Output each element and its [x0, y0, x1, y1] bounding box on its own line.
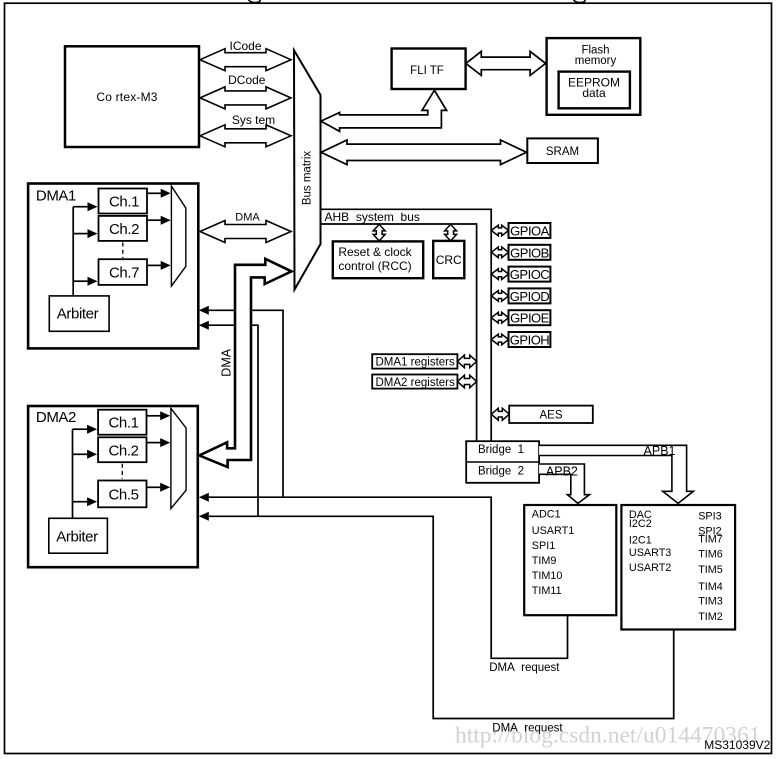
svg-text:data: data — [582, 86, 606, 100]
caption fragment 2 — [574, 0, 586, 3]
DMA1 mux — [171, 186, 185, 286]
ICode bus arrow — [200, 49, 291, 71]
svg-text:USART2: USART2 — [629, 562, 671, 574]
DMA bus double arrow — [200, 221, 291, 243]
DMA request wire branch to DMA1 — [209, 310, 284, 497]
caption fragment 1 — [249, 0, 261, 3]
DMA pipe arrow bus matrix to DMA2 — [199, 259, 291, 467]
DMA1 channel to mux arrow — [147, 192, 161, 194]
svg-text:control (RCC): control (RCC) — [338, 259, 411, 273]
svg-text:Reset & clock: Reset & clock — [338, 245, 412, 259]
svg-text:TIM3: TIM3 — [698, 596, 723, 608]
svg-text:MS31039V2: MS31039V2 — [704, 738, 770, 752]
DMA request wire from DAC group — [208, 516, 674, 718]
DMA request wire branch to DMA1 — [209, 325, 259, 516]
System bus arrow — [200, 125, 291, 147]
DMA2 box — [28, 406, 198, 567]
bus matrix to FLITF bent arrow — [321, 90, 447, 131]
DMA1 Ch.1 box — [99, 189, 148, 214]
DMA2 feeder wire — [72, 429, 74, 518]
RCC double arrow — [373, 224, 385, 241]
DMA1 feeder wire — [72, 207, 74, 296]
svg-text:TIM4: TIM4 — [698, 581, 723, 593]
DMA1 channel to mux arrow — [147, 219, 161, 221]
svg-text:FLI TF: FLI TF — [410, 65, 444, 77]
svg-text:USART3: USART3 — [629, 547, 671, 559]
svg-text:TIM5: TIM5 — [698, 564, 723, 576]
DMA1 box — [28, 184, 198, 349]
svg-text:DMA2 registers: DMA2 registers — [376, 377, 455, 389]
svg-text:TIM9: TIM9 — [532, 555, 557, 567]
DMA1 feeder stub arrow — [73, 280, 88, 282]
svg-text:GPIOA: GPIOA — [510, 224, 550, 239]
svg-text:I2C2: I2C2 — [629, 518, 652, 530]
DMA2 feeder stub arrow — [73, 453, 88, 455]
GPIOC double arrow — [491, 269, 508, 280]
GPIOD double arrow — [491, 291, 508, 302]
AHB system bus top line — [321, 209, 491, 441]
svg-text:SPI3: SPI3 — [698, 510, 721, 522]
svg-text:I2C1: I2C1 — [629, 535, 652, 547]
GPIOH box — [509, 332, 551, 347]
Bridge 1 / Bridge 2 box — [466, 441, 539, 483]
DMA2 Ch.1 box — [98, 410, 146, 435]
Reset & clock control (RCC) box — [333, 241, 423, 278]
GPIOC box — [509, 267, 551, 282]
svg-text:GPIOC: GPIOC — [510, 267, 550, 282]
svg-text:Ch.1: Ch.1 — [108, 415, 138, 432]
SRAM double arrow — [321, 140, 527, 165]
AES box — [509, 406, 593, 423]
DMA1 feeder stub arrow — [73, 206, 88, 208]
DMA2 feeder stub arrow — [73, 501, 88, 503]
svg-text:APB1: APB1 — [644, 444, 676, 458]
svg-text:AHB system bus: AHB system bus — [325, 210, 420, 224]
SRAM box — [527, 138, 598, 163]
DMA2 channel to mux arrow — [147, 486, 161, 488]
arrowhead into DMA2 — [199, 493, 209, 502]
APB1 bus with down arrow — [539, 445, 693, 503]
GPIOE double arrow — [491, 312, 508, 323]
svg-text:USART1: USART1 — [532, 525, 574, 537]
svg-text:DMA2: DMA2 — [36, 409, 76, 426]
GPIOD box — [509, 288, 551, 303]
svg-text:TIM10: TIM10 — [532, 570, 563, 582]
svg-text:Bridge 2: Bridge 2 — [478, 465, 524, 477]
svg-text:AES: AES — [539, 409, 562, 421]
DMA1 channel to mux arrow — [147, 264, 161, 266]
svg-text:DMA: DMA — [235, 212, 260, 224]
APB2 bus with down arrow — [539, 464, 589, 503]
svg-text:TIM2: TIM2 — [698, 611, 723, 623]
svg-text:DCode: DCode — [228, 73, 266, 87]
svg-text:GPIOH: GPIOH — [510, 333, 550, 348]
svg-text:Ch.2: Ch.2 — [109, 221, 139, 238]
svg-text:Ch.1: Ch.1 — [109, 193, 139, 210]
svg-text:SPI1: SPI1 — [532, 540, 555, 552]
DMA2 Ch.2 box — [98, 437, 146, 462]
svg-text:APB2: APB2 — [546, 464, 578, 478]
svg-text:GPIOB: GPIOB — [510, 245, 549, 260]
svg-text:DMA request: DMA request — [492, 723, 563, 735]
Cortex-M3 box — [65, 46, 199, 147]
svg-text:ICode: ICode — [229, 39, 261, 53]
DMA2 dashed line — [121, 464, 123, 479]
arrowhead into DMA1 — [199, 321, 209, 330]
CRC double arrow — [445, 224, 457, 241]
bus matrix — [294, 50, 321, 289]
CRC box — [433, 241, 464, 278]
svg-text:ADC1: ADC1 — [532, 509, 561, 521]
GPIOE box — [509, 310, 551, 325]
svg-text:DMA request: DMA request — [489, 662, 560, 674]
svg-text:SRAM: SRAM — [546, 146, 579, 158]
arrowhead into DMA2 — [199, 512, 209, 521]
DMA2 Ch.5 box — [98, 481, 146, 508]
DMA2 registers double arrow — [457, 375, 476, 388]
svg-text:memory: memory — [575, 55, 617, 67]
DMA request wire from ADC1 group — [208, 497, 568, 658]
DMA2 mux — [171, 408, 186, 508]
FLITF box — [392, 49, 466, 90]
svg-text:Arbiter: Arbiter — [57, 305, 99, 322]
arrowhead into DMA1 — [199, 306, 209, 315]
DMA1 Ch.7 box — [99, 259, 148, 285]
DMA1 dashed line — [122, 243, 124, 259]
svg-text:Ch.2: Ch.2 — [108, 442, 138, 459]
svg-text:DMA1: DMA1 — [36, 188, 76, 205]
svg-text:Ch.5: Ch.5 — [108, 486, 138, 503]
svg-text:DMA: DMA — [220, 348, 234, 376]
DMA1 registers double arrow — [457, 355, 476, 368]
svg-text:Ch.7: Ch.7 — [109, 265, 139, 282]
svg-text:DMA1 registers: DMA1 registers — [376, 357, 455, 369]
AES double arrow — [491, 408, 509, 420]
GPIOB double arrow — [491, 247, 508, 258]
svg-text:Bus matrix: Bus matrix — [302, 151, 314, 206]
APB1 peripherals box DAC.. — [621, 505, 735, 630]
DMA1 Ch.2 box — [99, 216, 148, 241]
DCode bus arrow — [200, 87, 291, 109]
DMA2 channel to mux arrow — [147, 442, 161, 444]
svg-text:GPIOE: GPIOE — [510, 311, 550, 326]
svg-text:Sys tem: Sys tem — [232, 113, 275, 127]
GPIOH double arrow — [491, 334, 508, 345]
DMA2 arbiter box — [49, 518, 108, 553]
svg-text:TIM7: TIM7 — [698, 534, 723, 546]
APB2 peripherals box ADC1.. — [524, 505, 616, 615]
GPIOA box — [509, 223, 551, 238]
svg-text:GPIOD: GPIOD — [510, 289, 550, 304]
AHB system bus bottom line — [321, 224, 477, 441]
svg-text:Co rtex-M3: Co rtex-M3 — [96, 90, 157, 104]
GPIOA double arrow — [491, 225, 508, 236]
FLITF-Flash double arrow — [466, 51, 546, 75]
DMA2 feeder stub arrow — [73, 428, 88, 430]
svg-text:CRC: CRC — [436, 253, 462, 267]
DMA1 registers box — [372, 354, 457, 368]
EEPROM data box — [559, 72, 630, 109]
DMA1 arbiter box — [49, 296, 109, 331]
svg-text:TIM11: TIM11 — [532, 585, 562, 597]
svg-text:Bridge 1: Bridge 1 — [478, 444, 524, 456]
DMA2 registers box — [372, 375, 457, 389]
svg-text:Arbiter: Arbiter — [56, 528, 98, 545]
Flash memory box — [547, 38, 641, 115]
GPIOB box — [509, 245, 551, 260]
DMA1 feeder stub arrow — [73, 233, 88, 235]
svg-text:TIM6: TIM6 — [698, 549, 723, 561]
DMA2 channel to mux arrow — [147, 415, 161, 417]
